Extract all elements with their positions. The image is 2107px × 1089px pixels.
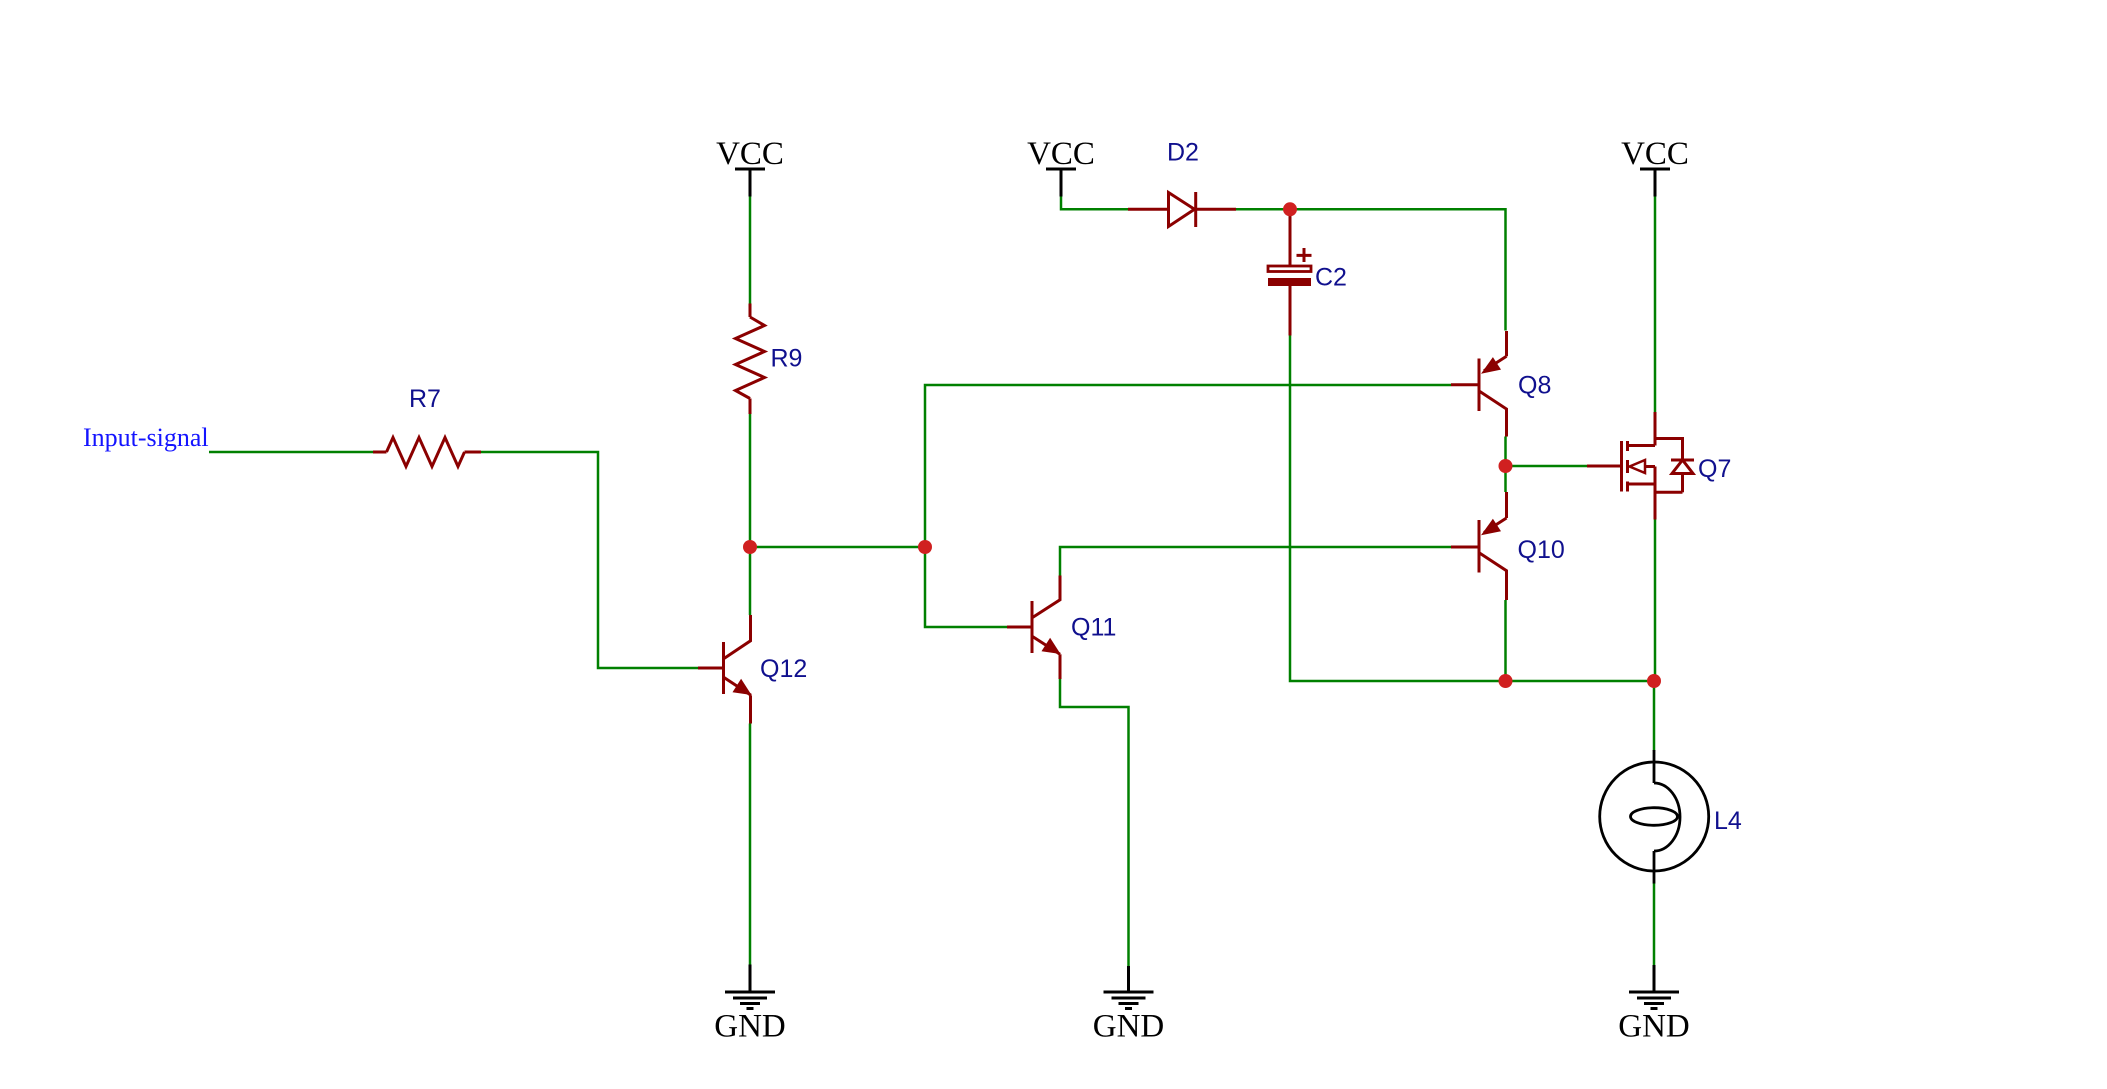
svg-text:R9: R9 — [771, 345, 803, 373]
svg-text:L4: L4 — [1714, 807, 1742, 835]
svg-text:GND: GND — [1618, 1009, 1690, 1045]
svg-text:Q7: Q7 — [1698, 455, 1731, 483]
svg-text:GND: GND — [1093, 1009, 1165, 1045]
svg-text:Q10: Q10 — [1518, 536, 1565, 564]
svg-text:D2: D2 — [1167, 139, 1199, 167]
svg-text:VCC: VCC — [716, 136, 784, 172]
svg-text:VCC: VCC — [1621, 136, 1689, 172]
svg-text:Q11: Q11 — [1071, 614, 1116, 642]
svg-text:VCC: VCC — [1027, 136, 1095, 172]
svg-text:Q8: Q8 — [1518, 372, 1551, 400]
svg-text:GND: GND — [714, 1009, 786, 1045]
svg-text:C2: C2 — [1315, 264, 1347, 292]
svg-text:Q12: Q12 — [760, 655, 807, 683]
svg-text:R7: R7 — [409, 385, 441, 413]
svg-text:Input-signal: Input-signal — [83, 423, 209, 452]
